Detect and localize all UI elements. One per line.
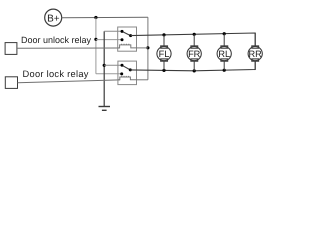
wire: right B+ vertical bbox=[147, 17, 149, 80]
wire: ground to lock relay NC contact bbox=[104, 64, 122, 66]
motor FL bbox=[157, 35, 171, 71]
wire: to unlock relay bottom contact bbox=[96, 39, 122, 41]
wire: lock relay common output / motor bottom rail bbox=[130, 61, 255, 71]
battery B+ symbol bbox=[45, 9, 62, 26]
motor RR bbox=[248, 33, 262, 70]
connector: door lock relay input bbox=[5, 77, 17, 89]
relay K1 coil bbox=[118, 44, 137, 48]
svg-text:FL: FL bbox=[159, 49, 170, 59]
svg-text:FR: FR bbox=[188, 49, 201, 59]
svg-text:RR: RR bbox=[249, 49, 263, 59]
node: FR bottom tap bbox=[193, 69, 196, 72]
wire: left B+ vertical bbox=[95, 18, 97, 74]
relay K1 door unlock relay box bbox=[118, 27, 137, 51]
node: B+ junction bbox=[94, 16, 97, 19]
connector: door unlock relay input bbox=[5, 43, 17, 55]
relay K2 NO contact pin bbox=[120, 72, 123, 75]
node: RL top tap bbox=[223, 32, 226, 35]
motor RL bbox=[217, 34, 231, 70]
relay K2 NC contact pin bbox=[121, 64, 124, 67]
wire: lock coil control (slight slope) bbox=[18, 80, 120, 83]
wire: ground to unlock relay NC contact bbox=[104, 30, 122, 32]
node: ground branch to lock relay NC bbox=[103, 64, 106, 67]
svg-text:Door unlock relay: Door unlock relay bbox=[21, 35, 92, 45]
relay K2 common pivot pin bbox=[129, 68, 132, 71]
node: unlock coil junction bbox=[146, 46, 149, 49]
wire: unlock relay common output / motor top rail bbox=[131, 33, 256, 46]
relay K1 NO contact pin bbox=[121, 38, 124, 41]
relay K1 NC contact pin bbox=[121, 30, 124, 33]
motor FR bbox=[187, 34, 201, 71]
relay K1 switch arm bbox=[122, 31, 131, 35]
node: RL bottom tap bbox=[223, 69, 226, 72]
node: FL bottom tap bbox=[162, 69, 165, 72]
relay K2 coil bbox=[118, 76, 137, 80]
node: branch to unlock relay NO contact bbox=[94, 38, 97, 41]
svg-text:Door lock relay: Door lock relay bbox=[23, 69, 89, 79]
wire: ground vertical bbox=[103, 31, 105, 106]
ground bbox=[99, 107, 111, 111]
wire: unlock coil to B+ vertical bbox=[137, 47, 148, 49]
wire: lock coil to B+ vertical bbox=[137, 79, 148, 81]
wire: unlock coil control bbox=[17, 47, 120, 49]
svg-text:B+: B+ bbox=[47, 13, 60, 24]
node: FL top tap bbox=[162, 33, 165, 36]
relay K2 door lock relay box bbox=[118, 61, 137, 85]
relay K1 common pivot pin bbox=[129, 34, 132, 37]
relay K2 switch arm bbox=[122, 65, 130, 70]
node: FR top tap bbox=[193, 33, 196, 36]
wire: to lock relay bottom contact bbox=[96, 73, 122, 75]
svg-text:RL: RL bbox=[218, 49, 230, 59]
wire: B+ feed horizontal bbox=[62, 16, 148, 19]
